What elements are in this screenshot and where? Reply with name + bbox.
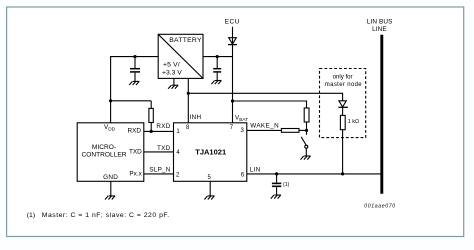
ground pin 5 [209,181,211,196]
ground below C1 [129,81,139,85]
dashed box only for master node [320,69,366,138]
wire VBAT branch to wake resistor [233,101,307,108]
diode D1 (ECU) [229,38,237,45]
battery box U2 [158,34,203,78]
diode D2 (master node) [339,101,346,107]
svg-text:MICRO-: MICRO- [92,144,116,151]
svg-text:TXD: TXD [129,149,142,156]
svg-text:SLP_N: SLP_N [149,166,170,173]
TJA1021 box U1 [174,123,247,182]
svg-text:+3.3 V: +3.3 V [162,69,182,76]
svg-text:LIN: LIN [250,167,261,174]
svg-text:ECU: ECU [225,19,240,26]
svg-text:RXD: RXD [128,127,142,134]
svg-text:only for: only for [333,74,353,81]
wire VDD rail to RXD resistor [111,100,152,102]
svg-text:LINE: LINE [372,26,387,33]
wire WAKE_N pin 3 [247,129,282,131]
wire SLP_N [144,173,174,175]
wire INH to master node diode [188,93,342,101]
wire INH vertical from battery bottom to pin 8 [187,78,189,122]
resistor R2 1 kOhm [340,115,345,129]
capacitor C2 [216,57,218,69]
svg-text:WAKE_N: WAKE_N [250,123,279,130]
wire battery right output to VBAT line [203,56,233,58]
ground below battery [173,78,175,85]
svg-text:Master: C = 1 nF; slave: C = 2: Master: C = 1 nF; slave: C = 220 pF. [42,212,170,219]
ground below switch [301,156,311,160]
capacitor C3 [276,174,278,183]
svg-text:(1): (1) [27,212,35,219]
ground below micro-controller [110,181,112,196]
resistor R3 (wake pull-up) [304,108,309,122]
ground below C3 [271,195,281,199]
svg-text:1 kΩ: 1 kΩ [348,119,360,125]
wire RXD [144,130,174,132]
svg-text:master node: master node [325,82,363,88]
wire ECU / VBAT vertical [232,27,234,123]
junction node dots [133,55,136,58]
LIN bus thick line [380,35,383,194]
svg-text:LIN BUS: LIN BUS [367,19,393,26]
svg-text:CONTROLLER: CONTROLLER [81,152,126,159]
svg-text:BATTERY: BATTERY [169,37,202,44]
resistor R4 (wake series) [281,129,299,133]
svg-text:001aae070: 001aae070 [364,203,396,209]
svg-text:TXD: TXD [157,145,171,152]
svg-text:RXD: RXD [156,123,170,130]
wire LIN pin 6 to bus [247,173,381,175]
svg-text:+5 V/: +5 V/ [163,62,180,69]
svg-text:(1): (1) [283,182,290,188]
micro-controller box U3 [77,123,144,182]
capacitor C1 [134,57,136,69]
svg-text:TJA1021: TJA1021 [195,148,226,157]
wire TXD [144,151,174,153]
ground below C2 [211,81,221,85]
svg-text:GND: GND [103,174,118,181]
svg-text:Px.x: Px.x [129,171,142,178]
svg-text:INH: INH [190,114,202,121]
switch S1 [306,130,308,134]
resistor R1 (RXD pull-up) [149,108,153,122]
wire VDD rail from battery left output [111,57,159,123]
